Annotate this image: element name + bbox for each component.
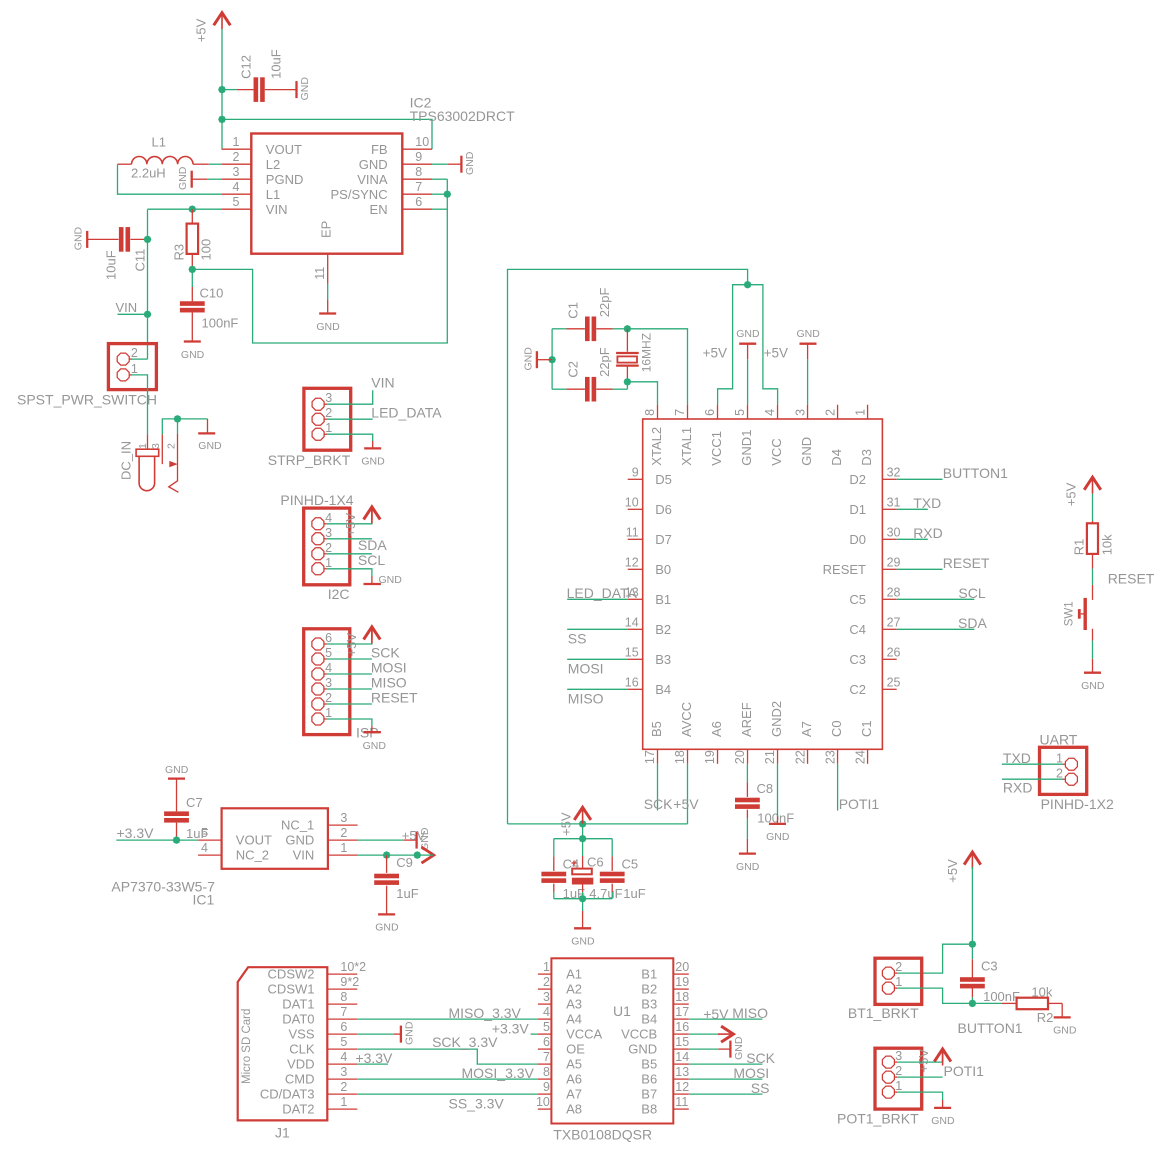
MCU pin 10 D6 [628, 508, 643, 510]
MCU pin 16 B4 [628, 688, 643, 690]
svg-text:SPST_PWR_SWITCH: SPST_PWR_SWITCH [17, 391, 157, 407]
svg-text:1: 1 [340, 1095, 347, 1109]
svg-text:POTI1: POTI1 [944, 1063, 985, 1079]
supply +5V arrow right [422, 847, 434, 863]
U1 pin 9 A7 [538, 1093, 552, 1095]
U1 pin 19 B2 [673, 988, 689, 990]
svg-text:DAT2: DAT2 [282, 1102, 314, 1117]
svg-text:2: 2 [1056, 766, 1063, 780]
junction to IC2 FB net [218, 116, 226, 124]
ground at I2C [371, 576, 373, 584]
ground at POT1 [942, 1100, 944, 1108]
svg-text:7: 7 [415, 180, 422, 194]
svg-text:D6: D6 [655, 502, 672, 517]
BT1 pad 2 [882, 967, 894, 979]
svg-text:DC_IN: DC_IN [119, 441, 134, 480]
ground at C12 [295, 81, 297, 98]
svg-text:GND: GND [464, 151, 476, 175]
svg-text:CMD: CMD [285, 1072, 315, 1087]
svg-text:VCC: VCC [769, 438, 784, 465]
wire BT1 pin 1 [897, 988, 972, 1003]
wire GND1 [747, 359, 749, 404]
svg-text:GND: GND [285, 833, 314, 848]
svg-text:C2: C2 [566, 361, 581, 378]
svg-text:TPS63002DRCT: TPS63002DRCT [410, 108, 515, 124]
supply +5V arrow at POT1 [942, 1051, 944, 1062]
svg-text:+5V: +5V [703, 1006, 729, 1022]
svg-text:10: 10 [415, 135, 429, 149]
I2C pad 4 [312, 518, 324, 530]
svg-text:5: 5 [233, 195, 240, 209]
svg-text:13: 13 [675, 1065, 689, 1079]
svg-text:B1: B1 [655, 592, 671, 607]
svg-text:3: 3 [325, 676, 332, 690]
resistor R2 10k [1002, 1002, 1017, 1004]
svg-text:2: 2 [340, 1080, 347, 1094]
svg-text:10k: 10k [1099, 534, 1114, 555]
svg-text:10uF: 10uF [103, 250, 118, 280]
svg-text:+5V: +5V [703, 346, 727, 361]
svg-text:22pF: 22pF [597, 288, 612, 318]
wire D1 TXD [897, 508, 928, 510]
svg-text:1: 1 [895, 1079, 902, 1093]
svg-text:25: 25 [887, 675, 901, 689]
wire B4 MISO [567, 688, 628, 690]
svg-text:2: 2 [325, 691, 332, 705]
svg-text:TXD: TXD [1003, 750, 1031, 766]
svg-text:2: 2 [823, 409, 837, 416]
wire AREF to C8 [746, 764, 748, 783]
MCU pin 20 AREF [747, 749, 749, 764]
svg-text:C6: C6 [587, 855, 604, 870]
MCU pin 19 A6 [717, 749, 719, 764]
svg-text:+5V: +5V [916, 1049, 931, 1073]
U1 pin 2 A2 [538, 988, 552, 990]
svg-text:31: 31 [887, 495, 901, 509]
svg-text:18: 18 [675, 990, 689, 1004]
capacitor C5 1uF [611, 839, 613, 857]
svg-text:RXD: RXD [913, 525, 943, 541]
svg-text:1: 1 [233, 135, 240, 149]
ground at GND2 [777, 817, 779, 824]
svg-text:MISO: MISO [371, 675, 407, 691]
svg-text:VCCB: VCCB [621, 1027, 657, 1042]
svg-text:GND: GND [165, 764, 189, 776]
U1 pin 15 GND [673, 1048, 689, 1050]
wire VIN pin 5 [148, 208, 222, 210]
svg-text:C3: C3 [981, 958, 998, 973]
svg-text:C4: C4 [849, 622, 866, 637]
switch S1 SPST_PWR_SWITCH body [108, 344, 156, 390]
ground at SW1 [1092, 659, 1094, 673]
svg-text:C11: C11 [133, 249, 148, 272]
svg-text:27: 27 [887, 615, 901, 629]
svg-text:23: 23 [823, 750, 837, 764]
svg-text:B3: B3 [641, 997, 657, 1012]
wire XTAL2 to pin 8 [627, 382, 657, 405]
junction R3 top [189, 205, 197, 213]
wire C2 left [552, 388, 566, 390]
svg-text:D5: D5 [655, 472, 672, 487]
svg-text:3: 3 [150, 443, 162, 449]
wire VINA pin 8 [432, 178, 447, 180]
J1 pin 4 VDD [327, 1063, 357, 1065]
svg-text:RESET: RESET [823, 562, 866, 577]
wire ISP MOSI [327, 673, 372, 675]
ground at C8 [739, 852, 756, 854]
svg-text:2: 2 [340, 826, 347, 840]
svg-text:22pF: 22pF [597, 347, 612, 377]
capacitor C8 100nF [746, 782, 748, 797]
J1 pin 2 CD/DAT3 [327, 1093, 357, 1095]
ground at R2 [1061, 1003, 1063, 1017]
junction at C12 tap [218, 86, 226, 94]
svg-text:NC_2: NC_2 [236, 848, 269, 863]
J1 pin 6 VSS [327, 1033, 357, 1035]
svg-text:B2: B2 [641, 982, 657, 997]
J1 pin 3 CMD [327, 1078, 357, 1080]
MCU pin 4 VCC [777, 405, 779, 419]
svg-text:XTAL2: XTAL2 [649, 427, 664, 466]
svg-text:+5V: +5V [344, 633, 359, 657]
wire EN pin 6 [432, 208, 447, 210]
U1 pin 11 B8 [673, 1108, 689, 1110]
svg-text:18: 18 [673, 750, 687, 764]
svg-text:3: 3 [543, 990, 550, 1004]
svg-text:GND: GND [799, 437, 814, 466]
IC1 pin 2 VOUT [198, 839, 222, 841]
svg-text:GND: GND [736, 861, 760, 873]
svg-text:8: 8 [543, 1065, 550, 1079]
svg-text:GND: GND [1053, 1025, 1077, 1037]
svg-text:2: 2 [166, 443, 178, 449]
wire VCC bridge [718, 285, 778, 405]
capacitor C11 10uF [119, 227, 124, 252]
wire PGND [207, 178, 222, 180]
MCU pin 1 D3 [867, 405, 869, 419]
svg-text:GND: GND [766, 831, 790, 843]
wire C0 POTI1 [837, 764, 839, 811]
ground at EP [327, 299, 329, 313]
svg-text:5: 5 [340, 1035, 347, 1049]
MCU pin 32 D2 [882, 478, 896, 480]
svg-text:B5: B5 [641, 1057, 657, 1072]
svg-text:3: 3 [233, 165, 240, 179]
MCU pin 7 XTAL1 [687, 405, 689, 419]
wire VDD +3.3V [357, 1063, 388, 1065]
svg-text:22: 22 [793, 750, 807, 764]
U1 pin 18 B3 [673, 1003, 689, 1005]
svg-text:2: 2 [325, 406, 332, 420]
MCU pin 24 C1 [867, 749, 869, 764]
svg-text:SW1: SW1 [1063, 601, 1075, 626]
wire I2C pin 4 to +5V [327, 520, 372, 524]
inductor L1 2.2uH [118, 163, 132, 165]
svg-text:14: 14 [675, 1050, 689, 1064]
svg-text:4: 4 [201, 841, 208, 855]
svg-text:NC_1: NC_1 [281, 818, 314, 833]
crystal Q1 16MHZ [626, 329, 628, 352]
svg-text:6: 6 [703, 409, 717, 416]
junction VIN label [144, 311, 152, 319]
wire B7 SS [689, 1093, 763, 1095]
junction button net [969, 940, 977, 948]
U1 pin 8 A6 [538, 1078, 552, 1080]
junction XTAL2 node [624, 378, 632, 386]
ISP pad 1 [312, 713, 324, 725]
svg-text:C9: C9 [396, 855, 413, 870]
MCU pin 17 B5 [657, 749, 659, 764]
J1 pin 5 CLK [327, 1048, 357, 1050]
svg-text:SCK: SCK [644, 796, 673, 812]
svg-text:D4: D4 [829, 449, 844, 466]
svg-text:GND: GND [931, 1115, 955, 1127]
capacitor C4 1uF [553, 839, 555, 857]
IC2 pin 3 PGND [222, 178, 252, 180]
U1 pin 6 OE [538, 1048, 552, 1050]
junction +5V at MCU [744, 281, 752, 289]
svg-text:B6: B6 [641, 1072, 657, 1087]
svg-text:C12: C12 [238, 55, 253, 79]
svg-text:SCL: SCL [358, 552, 385, 568]
IC2 pin 5 VIN [222, 208, 252, 210]
svg-text:11: 11 [626, 526, 639, 540]
svg-text:GND: GND [359, 157, 388, 172]
svg-text:1: 1 [325, 706, 332, 720]
supply +5V arrow right at VCCB [718, 1033, 731, 1035]
wire VCCB to +5V [689, 1033, 718, 1035]
MCU pin 3 GND [807, 405, 809, 419]
svg-text:+5V: +5V [194, 18, 209, 42]
U1 pin 14 B5 [673, 1063, 689, 1065]
svg-text:11: 11 [675, 1095, 688, 1109]
wire STRP pin 2 LED_DATA [327, 418, 373, 420]
wire DC_IN ground net [162, 419, 207, 435]
IC2 pin 7 PS/SYNC [402, 193, 432, 195]
U1 pin 17 B4 [673, 1018, 689, 1020]
wire GND pin 3 [807, 359, 809, 404]
wire B3 MOSI [567, 658, 628, 660]
svg-text:VCCA: VCCA [566, 1027, 602, 1042]
wire CMD MOSI_3.3V [357, 1078, 538, 1080]
svg-text:4: 4 [340, 1050, 347, 1064]
svg-text:5: 5 [733, 409, 747, 416]
svg-text:6: 6 [340, 1020, 347, 1034]
junction caps [579, 835, 587, 843]
MCU pin 22 A7 [807, 749, 809, 764]
wire +5V down [971, 867, 973, 944]
svg-text:10uF: 10uF [268, 49, 283, 79]
svg-text:MISO_3.3V: MISO_3.3V [449, 1005, 522, 1021]
svg-text:GND: GND [797, 328, 821, 340]
svg-text:GND2: GND2 [769, 701, 784, 737]
wire +3.3V to VOUT [116, 839, 198, 841]
svg-text:PS/SYNC: PS/SYNC [331, 187, 388, 202]
svg-text:+5V: +5V [402, 828, 426, 843]
svg-text:D7: D7 [655, 532, 672, 547]
resistor R3 100 [191, 209, 193, 223]
wire CLK SCK_3.3V [357, 1049, 538, 1064]
wire B1 LED_DATA [567, 598, 628, 600]
wire L1 to pin L2 [209, 163, 222, 165]
svg-text:BUTTON1: BUTTON1 [958, 1020, 1023, 1036]
svg-text:1: 1 [853, 409, 867, 416]
ground at PGND pin 3 [191, 171, 193, 188]
svg-text:R2: R2 [1037, 1010, 1054, 1025]
wire STRP pin 3 to VIN label [327, 390, 373, 404]
junction C3 bottom [969, 1000, 977, 1008]
supply +5V arrow at I2C [371, 509, 373, 520]
svg-text:CDSW1: CDSW1 [268, 982, 315, 997]
supply +5V arrow at R1 [1084, 477, 1101, 490]
wire gnd left rail [551, 329, 553, 389]
capacitor C1 22pF [567, 328, 585, 330]
svg-text:AREF: AREF [739, 702, 754, 737]
svg-text:100: 100 [198, 239, 213, 261]
svg-text:C1: C1 [566, 302, 581, 319]
ISP pad 3 [312, 683, 324, 695]
svg-text:2: 2 [233, 150, 240, 164]
svg-text:L1: L1 [266, 187, 280, 202]
svg-text:GND: GND [181, 349, 205, 361]
svg-text:PINHD-1X2: PINHD-1X2 [1041, 796, 1114, 812]
MCU pin 27 C4 [882, 628, 896, 630]
wire to C12 [222, 89, 237, 91]
wire +5V main rail [508, 269, 748, 824]
svg-text:R1: R1 [1071, 539, 1086, 556]
wire +5V to FB pin 10 [222, 119, 432, 149]
svg-text:17: 17 [643, 750, 657, 764]
svg-text:1: 1 [1056, 751, 1063, 765]
J1 pin 8 DAT1 [327, 1003, 357, 1005]
svg-text:+5V: +5V [945, 859, 960, 883]
svg-text:I2C: I2C [328, 586, 350, 602]
junction XTAL1 node [624, 325, 632, 333]
svg-text:A6: A6 [566, 1072, 582, 1087]
svg-text:+3.3V: +3.3V [117, 825, 155, 841]
capacitor C10 100nF [191, 269, 193, 287]
MCU pin 31 D1 [882, 508, 896, 510]
svg-text:VIN: VIN [371, 374, 394, 390]
svg-text:2.2uH: 2.2uH [131, 166, 166, 181]
wire I2C pin 1 to ground [327, 569, 372, 576]
svg-text:C0: C0 [829, 720, 844, 737]
svg-text:B4: B4 [641, 1012, 657, 1027]
svg-text:9: 9 [415, 150, 422, 164]
svg-text:3: 3 [340, 1065, 347, 1079]
U1 pin 10 A8 [538, 1108, 552, 1110]
IC2 pin 8 VINA [402, 178, 432, 180]
wire POT1 pin 3 to +5V [897, 1061, 942, 1063]
wire to R2 [972, 1002, 1002, 1004]
supply +5V arrow at ISP [371, 629, 373, 640]
capacitor C6 4.7uF polarized [582, 839, 584, 856]
svg-text:OE: OE [566, 1042, 585, 1057]
U1 pin 7 A5 [538, 1063, 552, 1065]
MCU pin 11 D7 [628, 538, 643, 540]
svg-text:A1: A1 [566, 967, 582, 982]
svg-text:+5V: +5V [764, 346, 788, 361]
MCU pin 26 C3 [882, 658, 896, 660]
svg-text:20: 20 [733, 750, 747, 764]
connector DC_IN barrel jack [147, 434, 149, 449]
svg-text:LED_DATA: LED_DATA [567, 585, 638, 601]
wire I2C pin 2 SCL [327, 553, 372, 555]
svg-text:16MHZ: 16MHZ [639, 333, 653, 372]
wire +5V rail to AVCC [508, 823, 688, 825]
wire L1 to pin L1 [118, 164, 222, 194]
wire VSS to ground [357, 1033, 394, 1035]
wire SW1 to ground [1092, 641, 1094, 659]
svg-text:17: 17 [675, 1005, 689, 1019]
svg-text:VIN: VIN [293, 848, 315, 863]
svg-text:8: 8 [643, 409, 657, 416]
svg-text:C7: C7 [186, 795, 203, 810]
svg-text:L1: L1 [152, 135, 166, 150]
svg-text:B3: B3 [655, 652, 671, 667]
svg-text:1: 1 [895, 975, 902, 989]
ground at C10 [184, 340, 201, 342]
ground at IC1 [404, 839, 417, 841]
connector STRP_BRKT body [304, 388, 351, 450]
MCU pin 8 XTAL2 [657, 405, 659, 419]
svg-text:GND: GND [1081, 680, 1105, 692]
svg-text:SDA: SDA [358, 537, 387, 553]
svg-text:100nF: 100nF [983, 989, 1020, 1004]
svg-text:A7: A7 [566, 1087, 582, 1102]
junction R3 bottom [189, 266, 197, 274]
wire R3/C10 to EN net [192, 179, 447, 343]
svg-text:Micro SD Card: Micro SD Card [241, 1009, 253, 1084]
svg-text:PGND: PGND [266, 172, 304, 187]
svg-text:TXD: TXD [913, 495, 941, 511]
svg-text:15: 15 [625, 646, 639, 660]
svg-text:DAT1: DAT1 [282, 997, 314, 1012]
svg-text:D0: D0 [849, 532, 866, 547]
svg-text:A5: A5 [566, 1057, 582, 1072]
svg-text:GND: GND [403, 1021, 415, 1045]
DC_IN switch blade [177, 434, 179, 481]
MCU pin 23 C0 [837, 749, 839, 764]
wire I2C pin 3 SDA [327, 538, 372, 540]
wire C2 right up [613, 388, 628, 390]
svg-text:C8: C8 [757, 781, 774, 796]
svg-text:1: 1 [131, 362, 138, 376]
connector POT1_BRKT body [875, 1048, 922, 1109]
I2C pad 2 [312, 548, 324, 560]
wire to BT1 pin 2 [897, 944, 972, 973]
svg-text:1uF: 1uF [186, 826, 208, 841]
IC1 pin 3 NC_1 [328, 824, 358, 826]
IC1 pin 2 GND [328, 839, 358, 841]
wire caps bottom [554, 898, 612, 900]
svg-text:DAT0: DAT0 [282, 1012, 314, 1027]
svg-text:+3.3V: +3.3V [355, 1050, 393, 1066]
svg-text:MISO: MISO [568, 691, 604, 707]
svg-text:20: 20 [675, 960, 689, 974]
svg-text:SDA: SDA [958, 615, 987, 631]
svg-text:8: 8 [415, 165, 422, 179]
ISP pad 6 [312, 638, 324, 650]
I2C pad 3 [312, 533, 324, 545]
junction caps gnd [579, 895, 587, 903]
svg-text:GND1: GND1 [739, 430, 754, 466]
wire ISP pin 1 to ground [327, 719, 372, 726]
svg-text:19: 19 [703, 750, 717, 764]
ground at ISP [371, 726, 373, 732]
svg-text:GND: GND [73, 226, 85, 250]
I2C pad 1 [312, 563, 324, 575]
